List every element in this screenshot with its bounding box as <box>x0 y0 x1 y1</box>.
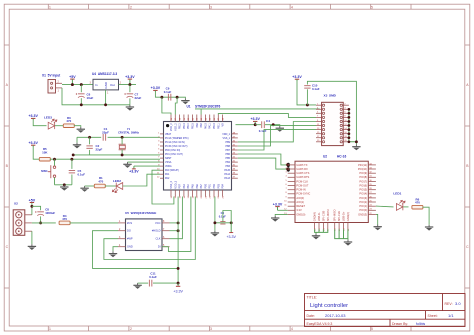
wire R1 to LED2 <box>105 185 116 187</box>
wire VSSA to ground <box>128 161 161 163</box>
svg-text:UART-CTS: UART-CTS <box>296 171 309 175</box>
svg-text:AIO(0): AIO(0) <box>296 196 304 200</box>
svg-text:REV:: REV: <box>445 302 453 306</box>
ground of X3 <box>352 145 360 151</box>
LED LED1 <box>396 200 405 210</box>
svg-text:PA14: PA14 <box>224 173 230 176</box>
svg-text:0.1uF: 0.1uF <box>149 275 157 279</box>
switch SW1 <box>48 159 56 185</box>
wire C5 riser <box>71 159 73 169</box>
svg-text:10K: 10K <box>42 151 48 155</box>
ground of crystal caps <box>73 143 81 149</box>
svg-text:PB4: PB4 <box>225 161 230 164</box>
junction HOLD rail <box>177 229 180 232</box>
junction C4 right <box>272 123 275 126</box>
svg-text:VSS_3: VSS_3 <box>170 180 173 188</box>
svg-text:PB12: PB12 <box>179 123 182 130</box>
svg-text:PIO(8): PIO(8) <box>359 175 367 179</box>
capacitor C4 <box>262 121 265 128</box>
svg-text:GND: GND <box>127 245 133 249</box>
junction C3 gnd <box>213 221 216 224</box>
svg-text:PCM-IN: PCM-IN <box>296 188 305 192</box>
svg-text:470: 470 <box>66 119 71 123</box>
svg-text:U5 W25Q64FVSSIGE: U5 W25Q64FVSSIGE <box>125 211 156 215</box>
svg-text:PIO(10): PIO(10) <box>358 167 367 171</box>
wire C3 top loop <box>223 211 231 223</box>
svg-text:SPI-MISO: SPI-MISO <box>333 210 337 222</box>
svg-text:3.0: 3.0 <box>455 301 461 306</box>
ground of SW1 <box>60 185 68 191</box>
svg-text:PB3: PB3 <box>225 165 230 168</box>
svg-text:LED2: LED2 <box>113 179 121 183</box>
module U3 left pins <box>284 163 310 217</box>
svg-text:PA0 (WKUP): PA0 (WKUP) <box>165 169 179 172</box>
crystal Y1 label <box>118 127 140 134</box>
wire C7 to gnd rail <box>129 98 131 104</box>
svg-text:PA5: PA5 <box>192 184 195 189</box>
power flag +3.3V C3 <box>226 223 236 239</box>
wire PB5 to U3 UART-RX <box>238 158 288 169</box>
svg-text:470: 470 <box>98 179 103 183</box>
junction UART-RX <box>286 168 289 171</box>
resistor R5 <box>39 157 50 161</box>
wire C7 riser <box>129 85 131 93</box>
wire WP wrap to U1 <box>104 197 195 260</box>
svg-text:VSS_2: VSS_2 <box>174 123 177 131</box>
capacitor C5 <box>69 171 75 173</box>
junction C10 bottom <box>306 103 309 106</box>
svg-text:PIO(0): PIO(0) <box>359 208 367 212</box>
svg-text:PCM-OUT: PCM-OUT <box>296 183 309 187</box>
module U3 bottom pins <box>313 209 350 231</box>
junction SW1 C5 ground <box>63 183 66 186</box>
wire PB6 to U3 UART-TX <box>238 154 288 165</box>
LED LED2 <box>112 183 122 193</box>
svg-text:5: 5 <box>371 327 373 331</box>
junction C8 bottom <box>39 221 42 224</box>
svg-text:AIO(1): AIO(1) <box>296 200 304 204</box>
svg-text:PB7: PB7 <box>225 149 230 152</box>
svg-text:PIO(2): PIO(2) <box>359 200 367 204</box>
svg-text:UART-TX: UART-TX <box>296 163 307 167</box>
junction +5V C8 <box>30 205 33 208</box>
power flag +3.3V <box>125 75 135 85</box>
svg-text:#WP: #WP <box>127 237 133 241</box>
svg-text:PB0: PB0 <box>204 183 207 188</box>
junction C4 left <box>254 123 257 126</box>
svg-text:+5V: +5V <box>69 75 76 79</box>
svg-text:PD0 (OSC IN): PD0 (OSC IN) <box>165 149 180 152</box>
svg-text:U2: U2 <box>323 154 327 158</box>
net marker on UART wires <box>287 163 290 172</box>
svg-text:RESET: RESET <box>296 204 305 208</box>
junction C9 right <box>176 96 179 99</box>
svg-text:PCM-CLK: PCM-CLK <box>296 179 308 183</box>
svg-text:VBAT: VBAT <box>165 133 172 136</box>
ground of C9 <box>181 98 189 104</box>
svg-text:PA1: PA1 <box>165 173 170 176</box>
svg-text:PCM-SYNC: PCM-SYNC <box>296 192 310 196</box>
svg-text:PC15 (OSC 32 OUT): PC15 (OSC 32 OUT) <box>165 145 188 148</box>
power flag +3.3V <box>28 114 38 120</box>
wire DO wrap <box>93 231 179 269</box>
MCU U1 pin1 dot <box>166 124 169 127</box>
svg-text:SPI-CLK: SPI-CLK <box>337 211 341 221</box>
wire X3 right pins ground bus <box>349 109 357 142</box>
svg-text:PIO(3): PIO(3) <box>359 196 367 200</box>
wire PB9 to X3 pin5 <box>238 122 316 142</box>
svg-text:PB15: PB15 <box>192 123 195 130</box>
svg-text:Light controller: Light controller <box>310 303 348 309</box>
svg-text:GND: GND <box>104 81 108 89</box>
svg-text:CRYSTAL 16MHz: CRYSTAL 16MHz <box>118 131 140 135</box>
power flag +5V <box>69 75 76 85</box>
wire U5 GND to ground <box>113 247 118 252</box>
svg-text:1: 1 <box>49 327 51 331</box>
junction Y1 top <box>121 136 124 139</box>
svg-text:GND(0): GND(0) <box>296 212 305 216</box>
svg-text:PA6: PA6 <box>196 184 199 189</box>
svg-text:0.1uF: 0.1uF <box>312 87 320 91</box>
wire U4 GND pin down <box>105 90 107 105</box>
svg-text:PB14: PB14 <box>187 123 190 130</box>
svg-text:Out: Out <box>110 83 115 87</box>
capacitor C2 <box>86 146 92 148</box>
wire HOLD to +3.3V rail <box>170 230 179 232</box>
junction C7 top <box>128 83 131 86</box>
wire C9 rail to U1 top pin2 <box>175 97 177 114</box>
resistor R1 label <box>98 176 103 183</box>
wire NRST net <box>50 158 160 160</box>
svg-text:X1 5V input: X1 5V input <box>42 74 61 78</box>
wire to C8 top <box>32 206 41 210</box>
svg-text:U4 AMS1117-3.3: U4 AMS1117-3.3 <box>92 72 117 76</box>
wire ground rail X1 pin1 <box>62 88 130 105</box>
svg-text:PB13: PB13 <box>183 123 186 130</box>
wire VCC to +3.3V rail <box>170 222 179 224</box>
svg-text:PIO(1): PIO(1) <box>359 204 367 208</box>
wire VDD_1 to C4 rail <box>236 124 256 126</box>
svg-text:In: In <box>95 83 98 87</box>
wire U1 top pin riser <box>200 109 202 115</box>
svg-text:1000uF: 1000uF <box>45 211 55 215</box>
wire C4 to ground <box>265 125 280 126</box>
wire DI stub ext <box>162 246 168 248</box>
wire +3.3V to X3 pin1 <box>297 81 316 105</box>
power flag +3.3V VDDA <box>129 166 139 174</box>
svg-text:PIO(7): PIO(7) <box>359 179 367 183</box>
capacitor C11 <box>149 280 152 287</box>
svg-text:3: 3 <box>210 327 212 331</box>
svg-text:PB?: PB? <box>179 183 182 188</box>
wire +3.3V to LED3 <box>33 120 46 126</box>
svg-text:Sheet:: Sheet: <box>428 314 438 318</box>
junction +5V tap <box>71 83 74 86</box>
svg-text:PB9: PB9 <box>225 141 230 144</box>
svg-text:+3.3V: +3.3V <box>273 202 283 206</box>
ground of U3 GND0 <box>271 216 279 222</box>
svg-text:PD1 (OSC OUT): PD1 (OSC OUT) <box>165 153 183 156</box>
svg-text:VDD_3: VDD_3 <box>174 180 177 188</box>
capacitor C1 label <box>102 127 109 134</box>
svg-text:2017-10-03: 2017-10-03 <box>325 313 346 318</box>
ground of C3 <box>211 231 219 237</box>
junction C2 top <box>88 136 91 139</box>
svg-text:0.1uF: 0.1uF <box>78 172 86 176</box>
wire U1 bottom pin to C3 node <box>214 197 216 231</box>
svg-text:PB3: PB3 <box>217 183 220 188</box>
svg-text:470: 470 <box>415 201 420 205</box>
capacitor C6 label <box>87 93 94 100</box>
svg-text:+3.3V: +3.3V <box>226 235 236 239</box>
svg-text:folibis: folibis <box>416 322 425 326</box>
svg-text:PA9: PA9 <box>200 123 203 128</box>
svg-text:X2: X2 <box>14 202 18 206</box>
junction Y1 bottom on PD1 net <box>121 153 124 156</box>
wire PD1 net <box>73 154 160 156</box>
svg-text:22pF: 22pF <box>102 131 109 135</box>
power flag +5V <box>29 198 36 203</box>
wire C11 to +3.3V rail <box>153 282 178 284</box>
junction gnd rail U4 <box>104 103 107 106</box>
svg-text:2: 2 <box>130 327 132 331</box>
svg-text:C4: C4 <box>266 119 270 123</box>
svg-text:VSS_1: VSS_1 <box>223 137 231 140</box>
wire SW1 C5 ground link <box>55 184 72 186</box>
flash U5 left pins <box>118 221 133 249</box>
svg-text:PB4: PB4 <box>222 183 225 188</box>
svg-text:PA4: PA4 <box>187 184 190 189</box>
power flag +3.3V <box>292 75 302 81</box>
power flag +3.3V bottom <box>173 283 183 294</box>
capacitor C3 <box>220 222 225 224</box>
ground of U3 bottom group2 <box>344 240 352 246</box>
power flag +3.3V <box>151 86 161 92</box>
title block values <box>310 301 461 326</box>
power flag +3.3V <box>273 202 283 210</box>
resistor R3 label <box>66 116 71 123</box>
resistor R6 label <box>415 197 420 204</box>
svg-text:3.3V: 3.3V <box>296 208 302 212</box>
wire X2 pin3 to ground <box>31 231 33 244</box>
power flag +3.3V <box>28 141 38 147</box>
wire C2 bottom <box>89 150 91 155</box>
svg-text:+3.3V: +3.3V <box>173 290 183 294</box>
capacitor C3 label <box>219 211 226 218</box>
svg-text:Date:: Date: <box>307 314 315 318</box>
MCU U1 body <box>164 122 232 191</box>
svg-text:470: 470 <box>62 217 67 221</box>
wire C5 to ground link <box>71 175 73 185</box>
svg-text:+3.3V: +3.3V <box>250 117 260 121</box>
ground of C11 <box>133 283 141 289</box>
svg-text:+3.3V: +3.3V <box>292 75 302 79</box>
svg-text:UART-RX: UART-RX <box>296 167 308 171</box>
connector X1 <box>48 80 62 94</box>
svg-text:PA11: PA11 <box>209 123 212 129</box>
svg-text:PB2: PB2 <box>213 183 216 188</box>
junction C3 +3.3V <box>230 221 233 224</box>
svg-text:PB10: PB10 <box>213 123 216 130</box>
connector X3 left pins <box>316 104 325 143</box>
junction C6 top <box>80 83 83 86</box>
svg-text:DI: DI <box>158 245 161 249</box>
svg-text:PIO(4): PIO(4) <box>359 192 367 196</box>
svg-text:#CS: #CS <box>127 221 132 225</box>
MCU U1 left pins <box>157 132 164 178</box>
svg-text:PA2: PA2 <box>165 177 170 180</box>
svg-text:Drawn By:: Drawn By: <box>392 322 408 326</box>
svg-text:VDD_2: VDD_2 <box>170 123 173 131</box>
svg-text:USB-D-: USB-D- <box>317 212 321 221</box>
svg-text:PIO(9): PIO(9) <box>359 171 367 175</box>
capacitor C7 label <box>135 93 142 100</box>
svg-text:PB8: PB8 <box>225 145 230 148</box>
resistor R3 <box>63 124 74 128</box>
svg-text:+3.3V: +3.3V <box>28 141 38 145</box>
flash U5 right pins <box>152 221 170 249</box>
wire +3.3V to C9 rail <box>155 92 177 97</box>
junction SW1 top <box>53 158 56 161</box>
wire U3 PIO to LED1 <box>376 205 394 208</box>
svg-text:HC-16: HC-16 <box>337 154 346 158</box>
MCU U1 label <box>187 105 221 109</box>
svg-text:PB11: PB11 <box>217 123 220 129</box>
svg-text:PA7: PA7 <box>200 184 203 189</box>
svg-text:GND(3): GND(3) <box>358 212 367 216</box>
wire R4 to U5 CS <box>70 222 118 224</box>
capacitor C11 label <box>149 271 157 278</box>
wire gnd top rail to X3 ground <box>307 81 356 144</box>
LED LED3 <box>48 119 57 129</box>
regulator U4 <box>90 79 122 94</box>
wire U1 top pin to X3 pin4 <box>218 114 316 118</box>
svg-text:GND(2): GND(2) <box>346 212 350 221</box>
connector X3 body <box>322 102 344 145</box>
svg-text:VSSA: VSSA <box>165 161 172 164</box>
ground of input section <box>126 105 134 111</box>
ground of U5 <box>109 251 117 257</box>
title block <box>305 294 466 327</box>
svg-text:LED1: LED1 <box>393 192 401 196</box>
wire gnd riser crystal <box>76 137 78 142</box>
svg-text:PIO(6): PIO(6) <box>359 183 367 187</box>
capacitor C6 <box>76 93 85 97</box>
capacitor C5 label <box>78 169 86 176</box>
wire U1 label underline to X3 pin2 <box>195 108 320 110</box>
svg-text:LED3: LED3 <box>44 115 52 119</box>
svg-text:EasyEDA V4.9.3: EasyEDA V4.9.3 <box>307 322 333 326</box>
MCU U1 bottom pins <box>171 190 225 198</box>
wire U3 GND0 to ground <box>275 214 288 215</box>
wire U3 bottom group1 to ground <box>315 229 328 233</box>
svg-text:PB1: PB1 <box>209 183 212 188</box>
wire PB7 to X3 pin7 <box>238 130 316 150</box>
wire C3 rail <box>215 222 231 224</box>
wire C6 to gnd rail <box>80 98 82 105</box>
junction X3 gnd <box>355 140 358 143</box>
module U3 label <box>323 154 346 158</box>
svg-text:3: 3 <box>210 5 212 9</box>
wire VDDA net <box>134 165 160 167</box>
svg-text:1/1: 1/1 <box>448 313 454 318</box>
junction UART-TX <box>286 163 289 166</box>
wire PA1 wrap to bottom pin <box>152 170 174 204</box>
wire C8 bottom to pin2 net <box>40 216 42 223</box>
svg-text:GND(4): GND(4) <box>313 212 317 221</box>
capacitor C10 label <box>312 84 320 91</box>
svg-text:PA3: PA3 <box>183 184 186 189</box>
junction C11 rail <box>177 282 180 285</box>
svg-text:0.1uF: 0.1uF <box>219 215 226 219</box>
ground of C4 <box>276 126 284 132</box>
wire +3.3V to U1 top pin <box>162 97 171 114</box>
svg-text:22pF: 22pF <box>96 147 103 151</box>
wire gnd to C11 <box>138 282 149 284</box>
wire C6 riser <box>80 85 82 93</box>
svg-text:0.1uF: 0.1uF <box>164 90 172 94</box>
flash U5 body <box>126 219 163 251</box>
resistor R5 label <box>42 147 48 154</box>
junction C5 top <box>70 158 73 161</box>
wire U3 bottom group2 to ground <box>335 229 348 240</box>
capacitor C8 <box>35 211 44 215</box>
wire U4 Out to +3.3V <box>119 84 137 86</box>
wire +3.3V to U3 3.3V pin <box>278 209 288 211</box>
capacitor C7 <box>124 93 133 97</box>
MCU U1 top pins <box>171 115 225 122</box>
wire U3 GND3 to ground <box>376 214 378 224</box>
junction PD1 net left <box>72 153 75 156</box>
svg-text:UART-RTS: UART-RTS <box>296 175 309 179</box>
svg-text:VDD_1: VDD_1 <box>222 133 230 136</box>
svg-text:4: 4 <box>291 327 293 331</box>
capacitor C8 label <box>45 208 55 215</box>
svg-text:VDDA: VDDA <box>165 165 172 168</box>
svg-text:SPI-CSB: SPI-CSB <box>321 211 325 222</box>
ground of LED3 <box>77 127 85 133</box>
wire X2 pin2 to R4 <box>32 222 56 224</box>
svg-text:PB6: PB6 <box>225 153 230 156</box>
wire R3 to ground <box>74 126 81 127</box>
svg-text:10uF: 10uF <box>87 96 94 100</box>
wire Y1 top pin <box>121 137 123 144</box>
svg-text:+3.3V: +3.3V <box>129 170 139 174</box>
svg-text:SW1: SW1 <box>41 169 48 173</box>
power flag +3.3V <box>250 117 260 125</box>
resistor R1 <box>94 184 105 188</box>
svg-text:PIO(11): PIO(11) <box>358 163 367 167</box>
wire PB8 to X3 pin6 <box>238 126 316 146</box>
svg-text:PA13: PA13 <box>224 177 230 180</box>
svg-text:NRST: NRST <box>165 157 172 160</box>
wire DI to U1 via dip <box>168 197 191 252</box>
svg-text:PB5: PB5 <box>225 157 230 160</box>
wire R1 left <box>85 185 96 187</box>
svg-text:22uF: 22uF <box>135 96 142 100</box>
ground of R1 <box>80 186 88 192</box>
svg-text:PC14 (OSC 32 IN): PC14 (OSC 32 IN) <box>165 141 185 144</box>
MCU U1 bottom pin names <box>170 180 225 188</box>
junction DO rail <box>177 267 180 270</box>
MCU U1 right pin names <box>222 133 230 180</box>
MCU U1 left pin names <box>165 133 189 180</box>
capacitor C2 label <box>96 144 103 151</box>
svg-text:TITLE:: TITLE: <box>307 296 318 300</box>
crystal Y1 <box>119 144 126 150</box>
svg-text:1: 1 <box>49 5 51 9</box>
ground of LED1 <box>425 225 433 231</box>
